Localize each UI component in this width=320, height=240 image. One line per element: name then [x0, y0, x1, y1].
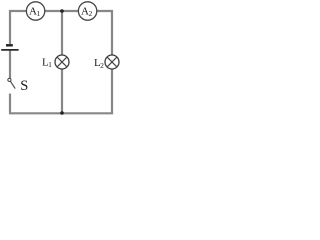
wire middle branch upper — [61, 11, 63, 55]
wire right branch lower — [111, 69, 113, 113]
lamp L2 — [105, 55, 119, 69]
lamp L1 — [55, 55, 69, 69]
ammeter A2 — [78, 2, 96, 20]
wire A1 to A2 — [45, 10, 79, 12]
svg-text:S: S — [20, 78, 28, 94]
battery cell — [6, 44, 13, 46]
wire A2 to top-right corner — [97, 11, 113, 55]
ammeter A1 — [26, 2, 44, 20]
switch S — [8, 78, 11, 81]
wire battery to switch — [9, 50, 11, 78]
node junction bottom — [60, 111, 64, 115]
wire middle branch lower — [61, 69, 63, 113]
wire switch to bottom — [9, 94, 11, 114]
wire top-left: corner to A1 — [10, 11, 27, 44]
wire bottom — [9, 112, 113, 114]
node junction top — [60, 9, 64, 13]
